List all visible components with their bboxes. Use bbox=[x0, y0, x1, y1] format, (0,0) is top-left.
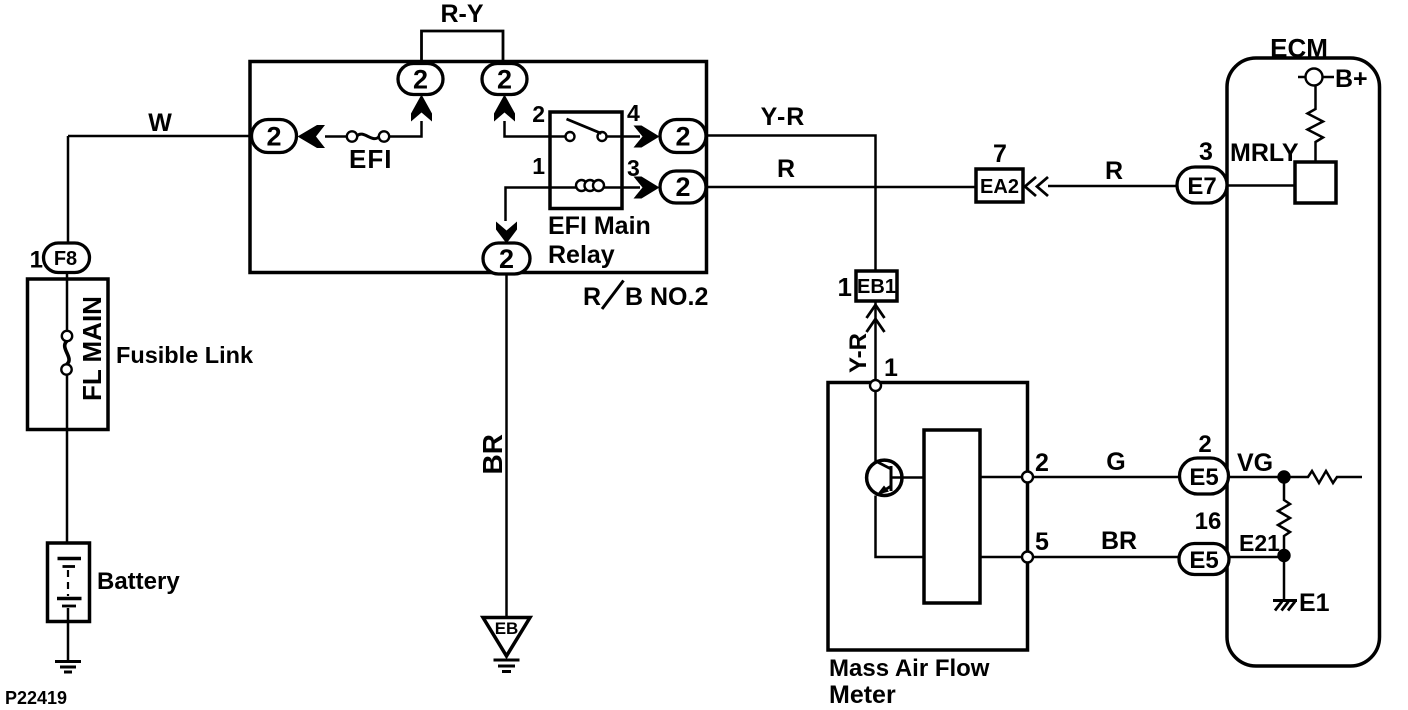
ground symbol below EB bbox=[494, 660, 520, 672]
wire Y-R from oval to EB1 bbox=[707, 136, 876, 272]
svg-text:R: R bbox=[777, 155, 795, 183]
B+ terminal circle bbox=[1298, 76, 1334, 79]
svg-text:EB: EB bbox=[495, 619, 519, 638]
wire node to chassis ground E1 bbox=[1283, 561, 1286, 601]
svg-text:2: 2 bbox=[1035, 449, 1049, 477]
svg-text:EFI Main: EFI Main bbox=[548, 212, 651, 240]
connector oval 2 (W input) bbox=[252, 120, 297, 153]
svg-text:B+: B+ bbox=[1335, 65, 1368, 93]
connector E5 (E21) bbox=[1179, 544, 1229, 575]
junction dot VG bbox=[1277, 470, 1290, 483]
svg-text:2: 2 bbox=[499, 244, 514, 274]
wire sensor pin 2 bbox=[980, 476, 1180, 479]
wire BR down to EB ground bbox=[505, 274, 508, 617]
svg-text:E21: E21 bbox=[1239, 530, 1280, 556]
resistor vertical VG to E21 bbox=[1278, 477, 1290, 555]
wire battery to ground bbox=[67, 622, 70, 662]
svg-text:G: G bbox=[1106, 448, 1125, 476]
Mass Air Flow Meter box bbox=[828, 383, 1028, 651]
arrow up to oval 2 (left) bbox=[411, 95, 432, 122]
wire E7 to MRLY box bbox=[1227, 184, 1295, 187]
svg-text:EA2: EA2 bbox=[980, 176, 1019, 198]
svg-text:MRLY: MRLY bbox=[1230, 139, 1299, 167]
svg-text:16: 16 bbox=[1195, 508, 1222, 535]
svg-text:Meter: Meter bbox=[829, 681, 896, 709]
svg-text:1: 1 bbox=[532, 153, 545, 179]
svg-text:E7: E7 bbox=[1187, 173, 1216, 200]
connector oval 2 (Y-R out) bbox=[660, 120, 706, 153]
svg-text:2: 2 bbox=[266, 122, 281, 152]
wire R from oval to EA2 bbox=[707, 186, 977, 189]
node circle MAF pin 1 bbox=[870, 380, 881, 391]
node circle MAF pin 5 bbox=[1022, 552, 1033, 563]
svg-text:7: 7 bbox=[993, 140, 1007, 168]
wire EA2 to E7 bbox=[1048, 185, 1177, 188]
wire EB1 to MAF node bbox=[874, 301, 877, 381]
svg-text:Relay: Relay bbox=[548, 241, 615, 269]
svg-text:EB1: EB1 bbox=[857, 276, 896, 298]
wire fuse to battery bbox=[66, 374, 69, 543]
svg-text:2: 2 bbox=[532, 101, 545, 127]
svg-text:1: 1 bbox=[30, 247, 43, 274]
wire W vertical to F8 bbox=[67, 136, 70, 243]
chassis ground E1 bbox=[1273, 599, 1297, 602]
relay coil bbox=[550, 186, 622, 189]
svg-text:1: 1 bbox=[884, 354, 898, 382]
arrow down to bottom oval bbox=[496, 222, 517, 244]
connector E7 bbox=[1177, 167, 1227, 203]
wire relay pin 3 to output bbox=[622, 186, 640, 189]
battery symbol plates bbox=[58, 557, 82, 561]
svg-text:VG: VG bbox=[1237, 449, 1273, 477]
EFI Main Relay box bbox=[550, 112, 622, 209]
svg-text:3: 3 bbox=[1199, 138, 1213, 166]
chevron arrows into EA2 bbox=[1025, 177, 1048, 196]
wire E5 to node VG bbox=[1229, 476, 1285, 479]
svg-text:5: 5 bbox=[1035, 528, 1049, 556]
resistor to B+ bbox=[1308, 86, 1324, 162]
svg-text:FL MAIN: FL MAIN bbox=[77, 296, 107, 401]
svg-text:BR: BR bbox=[477, 434, 508, 474]
fuse EFI bbox=[347, 131, 357, 141]
connector oval 2 (top right) bbox=[482, 64, 527, 95]
arrow right into oval (pin 3) bbox=[634, 177, 660, 199]
MRLY driver box bbox=[1295, 162, 1336, 203]
wire riser to relay switch pin 2 bbox=[505, 121, 551, 137]
svg-text:B NO.2: B NO.2 bbox=[625, 283, 708, 311]
connector E5 (VG) bbox=[1180, 458, 1229, 494]
wire W horizontal bbox=[68, 135, 252, 138]
svg-text:R: R bbox=[583, 283, 601, 311]
svg-text:ECM: ECM bbox=[1270, 33, 1328, 63]
wire node to transistor bbox=[874, 391, 877, 461]
svg-text:R-Y: R-Y bbox=[440, 0, 483, 28]
ECM box bbox=[1227, 58, 1380, 666]
arrow up to oval 2 (right) bbox=[494, 95, 515, 122]
wire E5 to node E21 bbox=[1229, 556, 1284, 559]
Battery box bbox=[48, 543, 90, 622]
ground triangle EB bbox=[483, 618, 530, 657]
connector oval 2 (top left) bbox=[398, 64, 443, 95]
svg-text:W: W bbox=[148, 109, 172, 137]
Fusible Link box bbox=[28, 279, 109, 430]
svg-text:E1: E1 bbox=[1299, 589, 1330, 617]
svg-text:2: 2 bbox=[1198, 431, 1211, 458]
wire fuse to riser bbox=[389, 121, 422, 137]
wire arrow to EFI fuse bbox=[325, 135, 348, 138]
svg-text:E5: E5 bbox=[1189, 464, 1218, 491]
wire relay pin 4 to output bbox=[622, 135, 640, 138]
svg-text:4: 4 bbox=[627, 100, 640, 126]
connector oval 2 (R out) bbox=[660, 171, 706, 203]
svg-text:2: 2 bbox=[497, 65, 512, 95]
svg-text:R: R bbox=[1105, 157, 1123, 185]
wire transistor collector to sensor bbox=[891, 476, 924, 479]
svg-text:BR: BR bbox=[1101, 527, 1137, 555]
connector EA2 bbox=[976, 169, 1023, 202]
ground below battery bbox=[55, 662, 81, 673]
svg-text:2: 2 bbox=[675, 172, 690, 202]
junction dot E21 bbox=[1277, 549, 1290, 562]
svg-text:F8: F8 bbox=[54, 248, 77, 270]
relay switch contacts bbox=[550, 135, 622, 138]
svg-text:Battery: Battery bbox=[97, 568, 180, 595]
node circle MAF pin 2 bbox=[1022, 472, 1033, 483]
arrow left into oval 2 bbox=[298, 125, 326, 148]
R-Y jumper loop bbox=[422, 31, 504, 62]
wire relay pin 1 to lower output bbox=[506, 188, 551, 222]
wire F8 to fusible link fuse bbox=[66, 272, 69, 331]
arrow right into oval (pin 4) bbox=[634, 126, 660, 148]
svg-text:Mass Air Flow: Mass Air Flow bbox=[829, 655, 990, 682]
svg-text:2: 2 bbox=[413, 65, 428, 95]
relay block R/B NO.2 box bbox=[250, 62, 707, 273]
connector oval 2 (BR out) bbox=[483, 243, 530, 274]
svg-text:1: 1 bbox=[838, 272, 852, 302]
MAF inner sensor rectangle bbox=[924, 430, 980, 603]
svg-text:Y-R: Y-R bbox=[845, 333, 872, 373]
svg-text:E5: E5 bbox=[1189, 547, 1218, 574]
relay switch blade bbox=[567, 119, 602, 134]
svg-text:Fusible Link: Fusible Link bbox=[116, 342, 254, 368]
svg-text:P22419: P22419 bbox=[5, 688, 67, 708]
connector EB1 bbox=[856, 271, 897, 301]
resistor horizontal VG bbox=[1284, 471, 1362, 483]
svg-text:2: 2 bbox=[675, 122, 690, 152]
svg-text:Y-R: Y-R bbox=[761, 103, 806, 131]
svg-text:EFI: EFI bbox=[349, 144, 392, 174]
chevron arrows up to EB1 bbox=[867, 305, 885, 332]
wire sensor pin 5 bbox=[980, 556, 1179, 559]
transistor in MAF bbox=[867, 460, 902, 495]
wire transistor emitter loop bbox=[876, 496, 925, 558]
fusible link fuse element FL MAIN bbox=[62, 331, 72, 341]
